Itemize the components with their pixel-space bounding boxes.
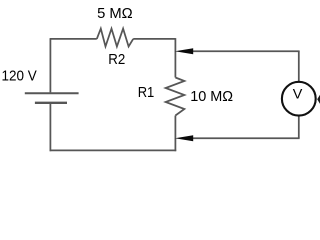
- wire: top horizontal, battery to R2: [50, 38, 97, 40]
- svg-text:V: V: [293, 87, 303, 102]
- svg-text:5 MΩ: 5 MΩ: [97, 5, 133, 22]
- wire: voltmeter right vertical, bottom: [298, 117, 300, 139]
- wire: top horizontal, R2 to right branch: [133, 38, 175, 40]
- wire: left vertical, top section (battery top lead): [49, 39, 51, 93]
- wire: voltmeter bottom horizontal: [193, 137, 300, 139]
- svg-text:R1: R1: [138, 84, 155, 101]
- arrow (probe) into node at top of R1: [175, 48, 193, 54]
- wire: middle branch vertical, bottom section: [174, 116, 176, 152]
- clipped arrowhead at right image edge: [317, 95, 320, 104]
- wire: left vertical, bottom section (battery bottom lead): [49, 103, 51, 151]
- svg-text:R2: R2: [108, 51, 125, 68]
- battery V1: long top plate: [25, 92, 79, 94]
- svg-text:120 V: 120 V: [2, 68, 37, 85]
- wire: middle branch vertical, top section: [174, 38, 176, 77]
- svg-text:10 MΩ: 10 MΩ: [190, 88, 233, 105]
- resistor R1 (10 MΩ) zigzag: [166, 78, 185, 116]
- resistor R2 (5 MΩ) zigzag: [97, 29, 133, 47]
- wire: voltmeter top horizontal: [193, 50, 300, 52]
- arrow (probe) into node at bottom of R1: [175, 135, 193, 141]
- battery V1: short bottom plate: [35, 102, 67, 104]
- wire: voltmeter right vertical, top: [298, 51, 300, 81]
- wire: bottom horizontal of main loop: [50, 149, 177, 151]
- voltmeter M1 circle: [282, 82, 316, 116]
